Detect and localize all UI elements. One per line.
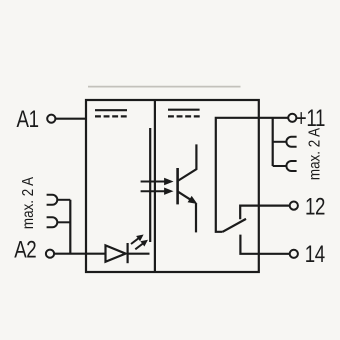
LED emission arrow 1 (131, 235, 143, 244)
terminal 12 circle (290, 202, 298, 210)
phototransistor emitter lead down (195, 203, 197, 232)
terminal A1 circle (47, 115, 55, 123)
wire A1 to box (56, 118, 86, 120)
svg-text:A1: A1 (16, 106, 38, 133)
right clamp hook 2 (273, 161, 297, 171)
svg-text:A2: A2 (14, 236, 36, 263)
relay contact blade (223, 219, 246, 232)
right clamp hook 1 (273, 137, 297, 147)
wire +11 into box (216, 118, 288, 232)
LED D1 triangle (106, 245, 126, 261)
optocoupler arrow 2 (141, 188, 173, 194)
divider between input and output sections (154, 100, 156, 272)
wire A2 to LED (54, 253, 105, 255)
DC symbol left: dashed line (95, 115, 127, 117)
DC symbol right: dashed line (168, 115, 200, 117)
phototransistor Q1 base bar (176, 168, 179, 204)
wire 12 with contact stub (240, 206, 290, 220)
svg-text:max. 2 A: max. 2 A (20, 177, 37, 229)
emitter arrowhead (188, 197, 196, 204)
left clamp hook 1 (47, 195, 71, 205)
optocoupler arrow 1 (141, 179, 173, 185)
terminal A2 circle (46, 250, 54, 258)
DC symbol right: solid line (168, 109, 200, 111)
right clamp terminal bus (272, 118, 274, 166)
terminal +11 circle (288, 114, 296, 122)
LED D1 cathode bar (126, 243, 128, 263)
isolation barrier line (149, 128, 151, 242)
terminal 14 circle (290, 250, 298, 258)
svg-text:12: 12 (305, 193, 325, 220)
phototransistor collector (178, 144, 197, 181)
phototransistor emitter wire (178, 191, 191, 200)
wire 14 with contact stub (240, 235, 290, 254)
svg-text:14: 14 (305, 241, 325, 268)
svg-text:max. 2 A: max. 2 A (306, 128, 323, 180)
svg-text:+11: +11 (296, 105, 325, 132)
DC symbol left: solid line (95, 109, 127, 111)
LED emission arrow 2 (135, 241, 147, 250)
wire LED to barrier (128, 253, 150, 255)
left clamp terminal bus (69, 200, 71, 254)
left clamp hook 2 (47, 217, 71, 227)
module outline box (86, 100, 259, 272)
faint artifact line above box (88, 86, 241, 88)
